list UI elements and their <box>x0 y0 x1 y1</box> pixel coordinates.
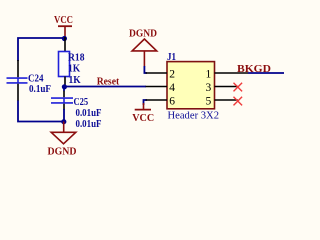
power port VCC (bottom, J1 pin 6) <box>132 103 154 124</box>
capacitor C24 <box>7 60 52 101</box>
pin 1 <box>215 72 249 74</box>
pin 4 <box>146 86 168 88</box>
svg-text:DGND: DGND <box>129 27 157 39</box>
junction ground rail <box>61 119 66 124</box>
no connect pin 3 <box>234 83 243 92</box>
svg-text:4: 4 <box>169 82 175 94</box>
power port DGND (top, J1 pin 2) <box>129 27 157 66</box>
junction R18/C25/Reset <box>62 84 67 89</box>
svg-text:VCC: VCC <box>54 14 73 26</box>
wire VCC junction to C24 top <box>18 38 65 61</box>
wire Reset <box>65 86 147 88</box>
wire C25 bottom to ground rail <box>63 109 65 122</box>
connector J1 <box>146 51 249 121</box>
svg-text:3: 3 <box>206 82 212 94</box>
no connect pin 5 <box>234 97 243 106</box>
wire J1 pin 6 to VCC (bottom) <box>144 100 148 105</box>
J1 body <box>167 62 215 109</box>
svg-text:BKGD: BKGD <box>237 63 271 75</box>
pin 6 <box>146 99 168 101</box>
svg-text:1K: 1K <box>68 63 81 75</box>
capacitor C25 <box>51 87 102 131</box>
svg-text:0.01uF: 0.01uF <box>76 118 102 130</box>
wire BKGD <box>248 72 284 74</box>
svg-text:Reset: Reset <box>97 75 120 87</box>
pin 3 <box>215 86 238 88</box>
svg-text:2: 2 <box>169 69 175 81</box>
wire C24 bottom to ground rail <box>18 101 64 122</box>
pin 5 <box>215 99 238 101</box>
junction VCC/R18/C24 <box>62 36 67 41</box>
wire DGND to J1 pin 2 <box>144 66 147 73</box>
pin 2 <box>146 72 168 74</box>
svg-text:6: 6 <box>169 96 175 108</box>
svg-text:Header 3X2: Header 3X2 <box>168 109 220 121</box>
power port VCC (top) <box>54 14 73 37</box>
svg-text:0.1uF: 0.1uF <box>29 83 51 95</box>
svg-text:VCC: VCC <box>132 112 154 124</box>
svg-text:5: 5 <box>206 96 212 108</box>
power port DGND (bottom) <box>48 122 77 158</box>
svg-text:1: 1 <box>206 69 212 81</box>
svg-text:1K: 1K <box>69 74 82 86</box>
svg-text:DGND: DGND <box>48 145 77 157</box>
resistor R18 <box>59 37 85 87</box>
